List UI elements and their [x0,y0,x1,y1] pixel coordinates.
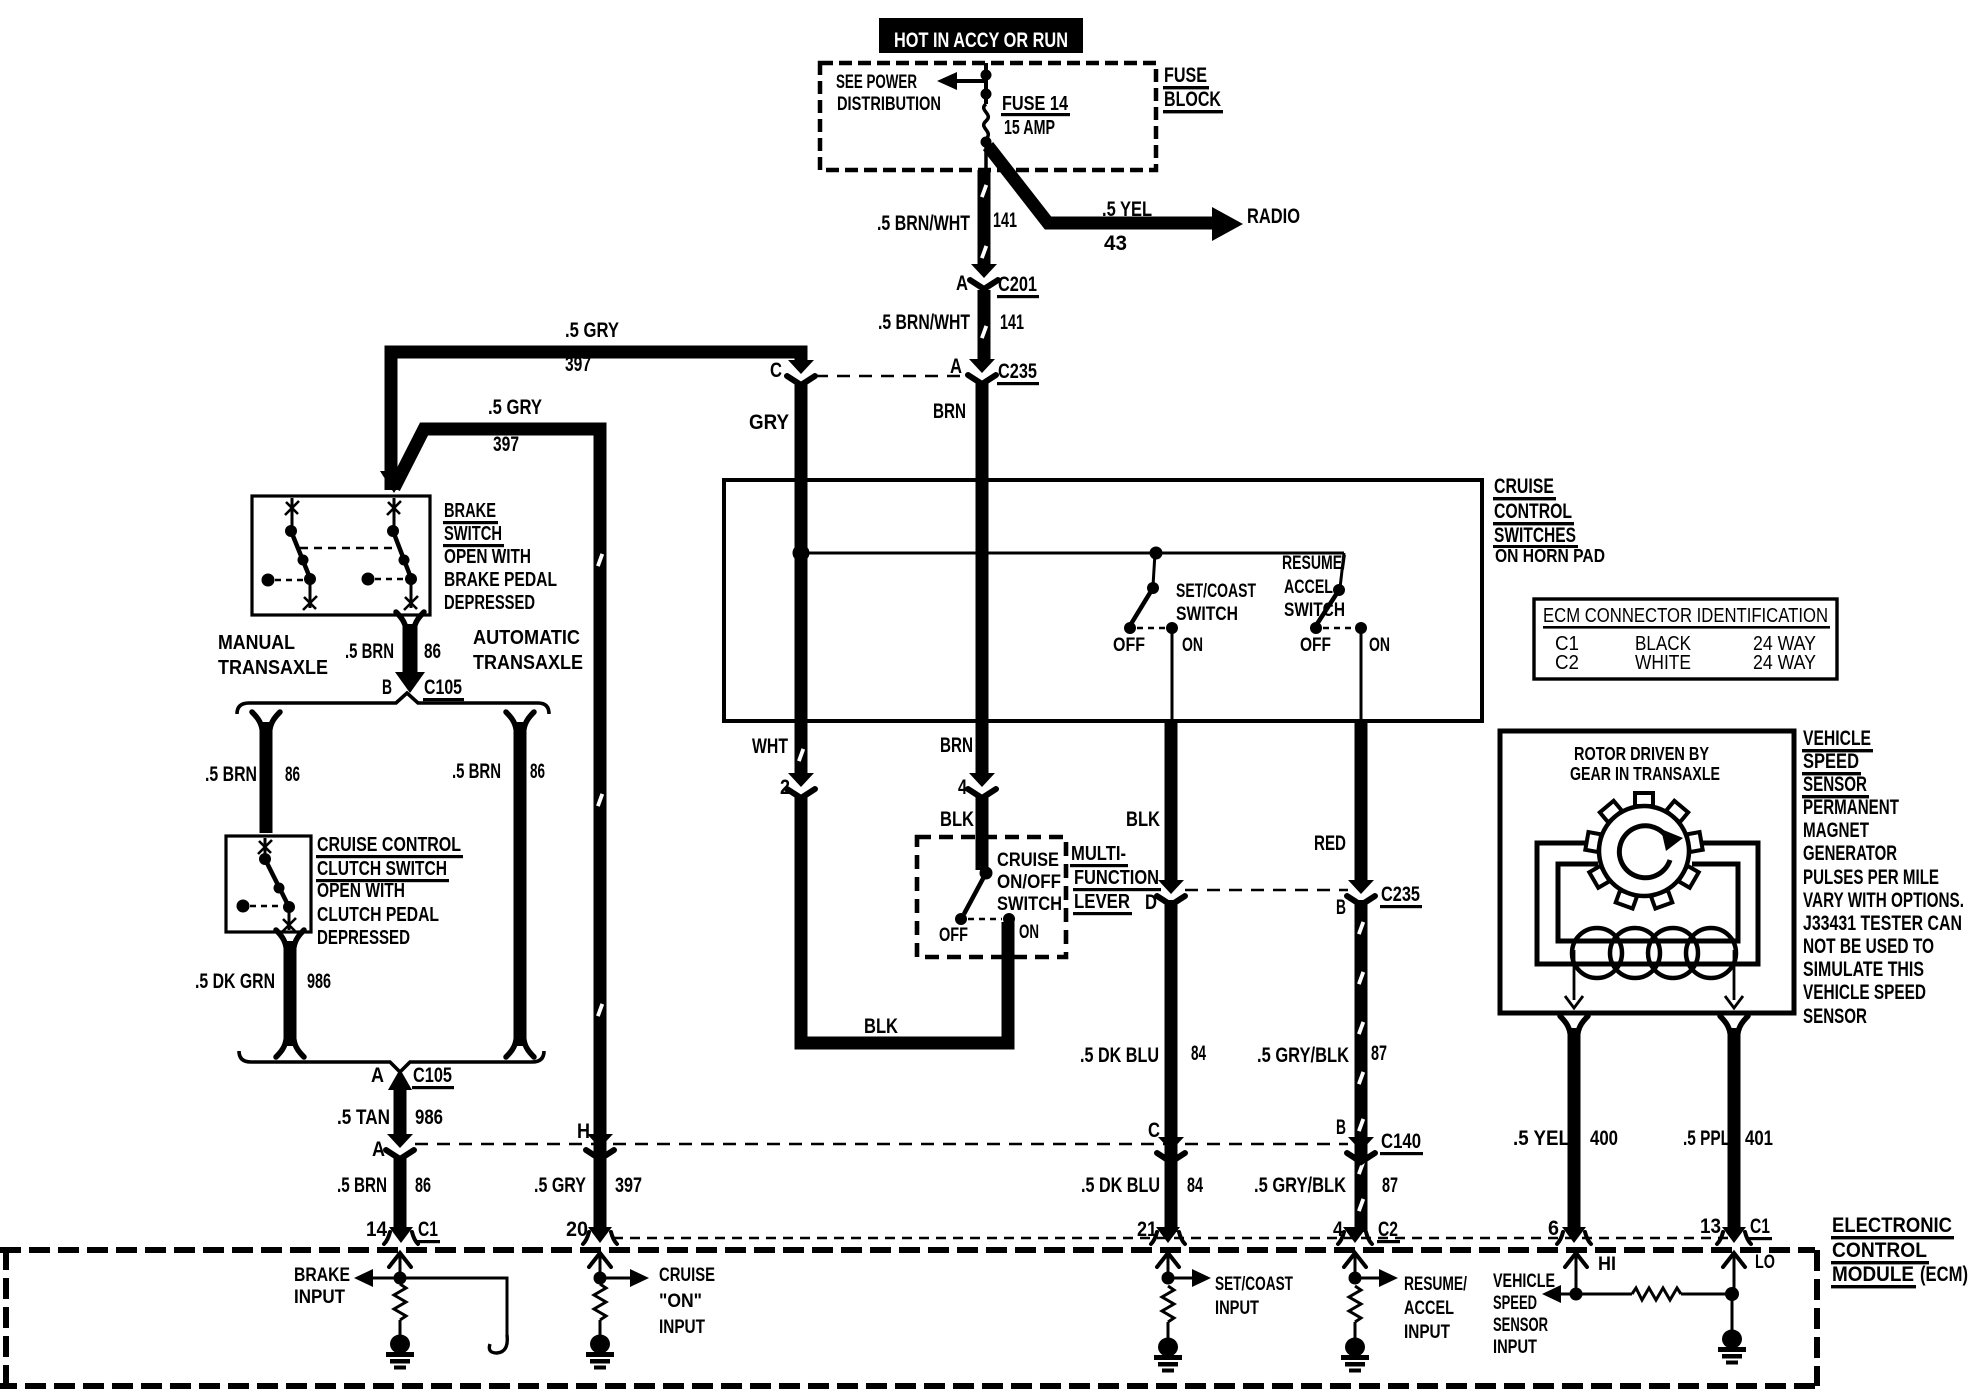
wire .5 BRN 86 (right branch, automatic transaxle) [506,712,534,1057]
svg-text:400: 400 [1590,1127,1618,1150]
brace lower (C105 join) [239,1051,544,1072]
svg-text:13: 13 [1700,1215,1721,1238]
label SEE POWER DISTRIBUTION [836,72,941,115]
svg-text:AUTOMATIC: AUTOMATIC [473,627,580,649]
svg-text:141: 141 [1000,311,1024,334]
svg-text:BRN: BRN [940,734,973,757]
svg-text:6: 6 [1548,1217,1559,1240]
svg-text:FUSE: FUSE [1164,64,1207,87]
svg-text:J33431 TESTER CAN: J33431 TESTER CAN [1803,912,1962,935]
svg-text:D: D [1145,891,1157,914]
svg-text:B: B [1336,1116,1346,1139]
svg-text:ROTOR DRIVEN BY: ROTOR DRIVEN BY [1574,744,1709,764]
label .5 GRY/BLK 87 (lower) [1254,1174,1398,1197]
dashed link C235 A to C [815,375,962,378]
svg-text:CRUISE: CRUISE [997,850,1059,871]
label VEHICLE SPEED SENSOR INPUT [1493,1271,1555,1358]
svg-text:CONTROL: CONTROL [1832,1239,1927,1262]
cruise control switches box [724,480,1482,721]
label MANUAL TRANSAXLE [218,632,328,679]
svg-text:A: A [956,272,968,295]
svg-text:SENSOR: SENSOR [1493,1315,1548,1336]
svg-text:14: 14 [366,1218,387,1241]
labels OFF ON (on/off switch) [939,922,1039,946]
svg-text:BLK: BLK [940,808,974,831]
labels OFF ON (set/coast) [1113,635,1203,656]
svg-text:.5 DK GRN: .5 DK GRN [195,970,275,993]
svg-text:DISTRIBUTION: DISTRIBUTION [837,94,941,115]
svg-text:PULSES PER MILE: PULSES PER MILE [1803,866,1939,889]
svg-text:NOT BE USED TO: NOT BE USED TO [1803,935,1934,958]
label .5 BRN 86 [337,1174,431,1197]
label CRUISE CONTROL CLUTCH SWITCH OPEN WITH CLUTCH PEDAL DEPRESSED [316,834,463,949]
label AUTOMATIC TRANSAXLE [473,627,583,674]
fuse F14 element (wire, dots, fuse squiggle) [981,63,992,170]
label .5 GRY 397 (second) [488,396,542,456]
wire .5 BRN/WHT 141 (C201 to C235) [980,290,988,364]
svg-text:VARY WITH OPTIONS.: VARY WITH OPTIONS. [1803,889,1964,912]
wire RED (resume/accel to connector B) [1355,721,1368,886]
connector C140 pin C [1148,1119,1185,1162]
ECM connector identification table [1534,599,1837,679]
label .5 PPL 401 [1683,1127,1773,1150]
ECM input pin arrows [389,1253,1745,1267]
svg-text:BLK: BLK [1126,808,1160,831]
long dashed connector line [415,1143,1348,1146]
dashed pin link line inside ECM row [613,1237,1734,1240]
svg-text:VEHICLE: VEHICLE [1493,1271,1555,1292]
connector C201 pin A [956,264,1039,298]
brake switch box [252,496,430,615]
svg-text:87: 87 [1382,1174,1398,1197]
vehicle speed sensor box [1500,731,1794,1013]
svg-text:C105: C105 [413,1064,452,1087]
ground (set/coast input) [1154,1338,1182,1373]
svg-text:ELECTRONIC: ELECTRONIC [1832,1214,1952,1237]
svg-text:VEHICLE SPEED: VEHICLE SPEED [1803,981,1926,1004]
connector C235 pin B [1336,880,1422,919]
svg-text:SWITCHES: SWITCHES [1494,524,1576,547]
wire .5 GRY/BLK 87 (B to C140 B) with hatch slashes [1357,900,1365,1232]
cruise control clutch switch box [226,836,311,932]
brake input circuit (pin 14) [354,1252,407,1336]
svg-text:C: C [1148,1119,1160,1142]
connector 4 [968,773,996,798]
label .5 DK GRN 986 [195,970,331,993]
svg-text:ON: ON [1019,922,1039,943]
svg-text:GEAR IN TRANSAXLE: GEAR IN TRANSAXLE [1570,764,1720,784]
svg-text:C235: C235 [1381,883,1420,906]
svg-text:SET/COAST: SET/COAST [1215,1274,1293,1295]
svg-text:C1: C1 [418,1218,438,1241]
svg-text:BLK: BLK [864,1015,898,1038]
svg-text:LO: LO [1755,1252,1775,1273]
svg-text:B: B [382,676,392,699]
svg-text:CLUTCH SWITCH: CLUTCH SWITCH [317,858,447,880]
svg-text:86: 86 [415,1174,431,1197]
svg-text:HOT IN ACCY OR RUN: HOT IN ACCY OR RUN [894,29,1068,52]
svg-text:INPUT: INPUT [1493,1337,1537,1358]
connector C235 pin D [1145,880,1185,914]
svg-text:OFF: OFF [1113,635,1145,656]
brace upper (C105 split) [237,693,549,714]
ground (cruise on input) [586,1335,614,1370]
svg-text:TRANSAXLE: TRANSAXLE [218,657,328,679]
dashed link D to B (C235) [1185,889,1348,892]
ECM pin 14 C1 [366,1218,440,1244]
wire GRY inside box [795,482,808,721]
label .5 BRN 86 [345,640,441,663]
svg-text:WHITE: WHITE [1635,652,1691,674]
svg-text:BLOCK: BLOCK [1164,88,1221,111]
wire .5 BRN/WHT 141 (fuse to C201) [980,170,988,266]
svg-text:141: 141 [993,209,1017,232]
wire .5 TAN 986 [394,1090,407,1140]
svg-text:.5 BRN: .5 BRN [205,763,257,786]
svg-text:A: A [372,1138,385,1161]
connector pin A (lower) [372,1134,414,1161]
brake switch mechanical link (dashed) [300,547,398,550]
set/coast input circuit (pin 21) [1162,1252,1212,1339]
pickup coil [1572,928,1736,978]
svg-text:.5 GRY: .5 GRY [488,396,542,419]
wire .5 DK GRN 986 (clutch switch to C105 A) [276,930,304,1057]
ECM pin 21 [1137,1218,1185,1244]
svg-text:ON: ON [1182,635,1203,656]
wire .5 YEL 400 (VSS to ECM pin 6) [1560,1016,1588,1232]
svg-text:20: 20 [566,1218,588,1241]
cruise on input circuit (pin 20) [594,1252,650,1336]
svg-text:.5 GRY: .5 GRY [565,319,619,342]
labels OFF ON (resume/accel) [1300,635,1390,656]
svg-text:C201: C201 [998,273,1037,296]
svg-text:FUNCTION: FUNCTION [1074,867,1159,889]
cruise on/off switch dashed box [917,837,1066,957]
label .5 GRY 397 (top) [565,319,619,376]
wire resistor to LO node [1681,1252,1739,1331]
svg-text:A: A [371,1064,384,1087]
resistor (HI-LO) [1632,1288,1681,1300]
ground (brake input) [386,1335,414,1370]
connector C105 pin B [382,676,464,701]
svg-text:CONTROL: CONTROL [1494,500,1572,523]
connector C140 pin B [1336,1116,1423,1162]
label ROTOR DRIVEN BY GEAR IN TRANSAXLE [1570,744,1720,784]
svg-text:H: H [577,1120,590,1143]
fuse block dashed box [820,63,1156,170]
wire BLK (set/coast to connector D) [1165,721,1178,886]
svg-text:CRUISE: CRUISE [1494,475,1554,498]
wire .5 PPL 401 (VSS to ECM pin 13) [1720,1016,1748,1232]
svg-text:397: 397 [615,1174,642,1197]
svg-text:BRN: BRN [933,400,966,423]
ground (resume/accel input) [1341,1338,1369,1373]
connector C (C235) [770,359,815,385]
wire WHT (cruise box to connector 2) [797,721,805,778]
svg-text:86: 86 [530,760,545,783]
label VEHICLE SPEED SENSOR note column [1802,727,1964,1028]
label .5 BRN/WHT 141 [877,209,1017,235]
svg-text:SENSOR: SENSOR [1803,1005,1867,1028]
connector H (on GRY 397 wire) [577,1120,614,1159]
label .5 BRN 86 [205,763,300,786]
label .5 GRY 397 (at pin 20) [534,1174,642,1197]
svg-text:RED: RED [1314,832,1346,855]
svg-text:.5 GRY/BLK: .5 GRY/BLK [1254,1174,1346,1197]
svg-text:RESUME/: RESUME/ [1282,553,1347,574]
label FUSE 14 15 AMP [1001,93,1070,139]
svg-text:397: 397 [565,353,591,376]
ECM pin 4 C2 [1333,1218,1400,1244]
svg-text:SWITCH: SWITCH [997,894,1062,915]
label BRAKE INPUT [294,1265,350,1308]
svg-text:43: 43 [1104,232,1127,255]
svg-text:CRUISE: CRUISE [659,1265,715,1286]
label .5 YEL 43 RADIO [1102,198,1300,255]
svg-text:OFF: OFF [1300,635,1331,656]
ECM pin 6 [1548,1217,1591,1244]
wire BLK (connector 2 to cruise on/off switch ON contact) [801,795,1008,1043]
wire .5 BRN 86 (left branch to clutch switch) [252,712,280,833]
sensor lead arrows [1565,950,1743,1008]
svg-text:OPEN WITH: OPEN WITH [317,880,405,902]
svg-text:INPUT: INPUT [659,1317,705,1338]
wire BRN into switch box [976,382,989,482]
svg-text:.5 PPL: .5 PPL [1683,1127,1730,1150]
svg-text:397: 397 [493,433,519,456]
wire .5 YEL 43 to radio [988,146,1243,241]
wire GRY into cruise switch box [795,382,808,482]
svg-text:401: 401 [1745,1127,1773,1150]
svg-text:SENSOR: SENSOR [1803,773,1867,796]
connector C105 pin A (arrow up) [371,1064,454,1090]
svg-text:GENERATOR: GENERATOR [1803,842,1897,865]
label .5 YEL 400 [1513,1127,1618,1150]
svg-text:.5 DK BLU: .5 DK BLU [1081,1174,1160,1197]
svg-text:MULTI-: MULTI- [1071,843,1126,865]
brake switch pole 1 [262,498,318,610]
svg-text:DEPRESSED: DEPRESSED [317,927,410,949]
svg-text:ACCEL: ACCEL [1284,577,1333,598]
ground (vss lo) [1718,1330,1746,1365]
svg-text:87: 87 [1371,1042,1387,1065]
svg-text:INPUT: INPUT [1404,1322,1450,1343]
stator yoke (magnet core) [1537,843,1758,964]
svg-text:CRUISE CONTROL: CRUISE CONTROL [317,834,461,856]
svg-text:SWITCH: SWITCH [444,523,502,545]
svg-text:SWITCH: SWITCH [1284,600,1345,621]
label SET/COAST SWITCH [1176,581,1256,625]
svg-text:GRY: GRY [749,411,789,434]
svg-text:BRAKE: BRAKE [444,500,496,522]
svg-text:VEHICLE: VEHICLE [1803,727,1871,750]
svg-text:.5 BRN: .5 BRN [337,1174,387,1197]
svg-text:SIMULATE THIS: SIMULATE THIS [1803,958,1924,981]
label RESUME/ ACCEL INPUT [1404,1274,1468,1343]
svg-text:.5 BRN/WHT: .5 BRN/WHT [878,311,970,334]
svg-text:SET/COAST: SET/COAST [1176,581,1256,602]
svg-text:.5 BRN: .5 BRN [345,640,394,663]
svg-text:BRAKE PEDAL: BRAKE PEDAL [444,569,557,591]
pigtail stub from brake input node [400,1278,507,1353]
svg-text:84: 84 [1187,1174,1203,1197]
svg-text:.5 YEL: .5 YEL [1513,1127,1570,1150]
wire .5 GRY 397 (C235 C to brake switch) [391,352,801,490]
svg-text:.5 DK BLU: .5 DK BLU [1080,1044,1159,1067]
label CRUISE ON/OFF SWITCH [997,850,1062,915]
svg-text:ON: ON [1369,635,1390,656]
label .5 DK BLU 84 [1080,1042,1206,1067]
label WHT 2 [752,735,790,799]
wire .5 BRN 86 (to ECM pin 14) [394,1157,407,1232]
label CRUISE "ON" INPUT [659,1265,715,1338]
arrow to power distribution [937,72,985,90]
wire BRN inside box [976,482,989,721]
label FUSE BLOCK [1163,64,1223,113]
svg-text:CLUTCH PEDAL: CLUTCH PEDAL [317,904,439,926]
svg-text:OFF: OFF [939,925,968,946]
svg-text:(ECM): (ECM) [1920,1263,1968,1286]
svg-text:.5 GRY: .5 GRY [534,1174,586,1197]
svg-text:C140: C140 [1381,1130,1421,1153]
svg-text:ACCEL: ACCEL [1404,1298,1454,1319]
svg-text:86: 86 [424,640,441,663]
connector 2 [787,773,815,798]
node: supply rail [793,545,1345,562]
label .5 DK BLU 84 (lower) [1081,1174,1203,1197]
vehicle speed sensor input circuit (pins 6,13) [1542,1252,1632,1303]
svg-text:A: A [950,355,962,378]
svg-text:SPEED: SPEED [1803,750,1859,773]
svg-text:LEVER: LEVER [1074,891,1130,913]
label .5 BRN/WHT 141 [878,311,1024,334]
svg-text:24 WAY: 24 WAY [1753,652,1816,674]
svg-text:C2: C2 [1555,652,1579,674]
label ELECTRONIC CONTROL MODULE (ECM) [1831,1214,1968,1288]
HOT IN ACCY OR RUN power tag [879,18,1083,53]
label CRUISE CONTROL SWITCHES ON HORN PAD [1493,475,1605,566]
ECM pin 20 [566,1218,617,1244]
svg-text:RESUME/: RESUME/ [1404,1274,1468,1295]
resume/accel switch SW2 [1310,553,1367,721]
brake switch pole 2 [362,498,419,610]
svg-text:C1: C1 [1750,1215,1770,1238]
svg-text:.5 GRY/BLK: .5 GRY/BLK [1257,1044,1349,1067]
label MULTI-FUNCTION LEVER [1070,843,1161,915]
svg-text:MAGNET: MAGNET [1803,819,1869,842]
svg-text:OPEN WITH: OPEN WITH [444,546,531,568]
clutch switch element [237,838,297,932]
svg-text:INPUT: INPUT [294,1287,345,1308]
svg-text:B: B [1336,896,1346,919]
svg-text:SWITCH: SWITCH [1176,604,1238,625]
svg-text:84: 84 [1191,1042,1206,1065]
svg-text:.5 TAN: .5 TAN [337,1106,390,1129]
label BRN 4 [940,734,973,799]
svg-text:"ON": "ON" [659,1291,702,1312]
wire .5 BRN 86 (brake switch to C105 B) [395,612,425,693]
svg-text:RADIO: RADIO [1247,205,1300,228]
connector C235 pin A [950,355,1039,385]
svg-text:WHT: WHT [752,735,788,758]
svg-text:986: 986 [307,970,331,993]
svg-text:86: 86 [285,763,300,786]
svg-text:986: 986 [415,1106,443,1129]
svg-text:BRAKE: BRAKE [294,1265,350,1286]
svg-text:15 AMP: 15 AMP [1004,117,1055,139]
svg-text:DEPRESSED: DEPRESSED [444,592,535,614]
rotor gear [1585,793,1702,909]
svg-text:INPUT: INPUT [1215,1298,1259,1319]
svg-text:.5 BRN: .5 BRN [452,760,501,783]
svg-text:ON/OFF: ON/OFF [997,872,1061,893]
svg-text:C235: C235 [998,360,1037,383]
electronic control module dashed box [0,1250,1817,1386]
wire .5 GRY 397 (brake switch to ECM pin 20) [380,429,604,1232]
wire .5 DK BLU 84 (D to C140 C) [1165,900,1178,1232]
svg-text:ECM CONNECTOR IDENTIFICATION: ECM CONNECTOR IDENTIFICATION [1543,605,1828,627]
label .5 BRN 86 [452,760,545,783]
svg-text:FUSE 14: FUSE 14 [1002,93,1069,115]
label SET/COAST INPUT [1215,1274,1293,1319]
resume/accel input circuit (pin 4) [1349,1252,1399,1339]
svg-text:SEE POWER: SEE POWER [836,72,917,93]
svg-text:ON HORN PAD: ON HORN PAD [1495,546,1605,566]
label .5 TAN 986 [337,1106,443,1129]
svg-text:MODULE: MODULE [1832,1263,1914,1286]
label BRAKE SWITCH OPEN WITH BRAKE PEDAL DEPRESSED [443,500,557,614]
cruise on/off switch element [955,867,1015,926]
wire BLK (connector 4 into on/off switch) [976,795,989,870]
svg-text:.5 YEL: .5 YEL [1102,198,1152,221]
svg-text:.5 BRN/WHT: .5 BRN/WHT [877,212,970,235]
svg-text:PERMANENT: PERMANENT [1803,796,1899,819]
label RESUME/ ACCEL SWITCH [1282,553,1347,621]
set/coast switch SW1 [1124,553,1178,721]
svg-text:HI: HI [1598,1254,1616,1275]
wire BRN (cruise box to connector 4) [976,721,989,778]
svg-text:C105: C105 [424,676,462,699]
svg-text:MANUAL: MANUAL [218,632,295,654]
label .5 GRY/BLK 87 [1257,1042,1387,1067]
svg-text:C: C [770,359,782,382]
svg-text:SPEED: SPEED [1493,1293,1537,1314]
ECM pin 13 C1 [1700,1215,1772,1244]
svg-text:TRANSAXLE: TRANSAXLE [473,652,583,674]
